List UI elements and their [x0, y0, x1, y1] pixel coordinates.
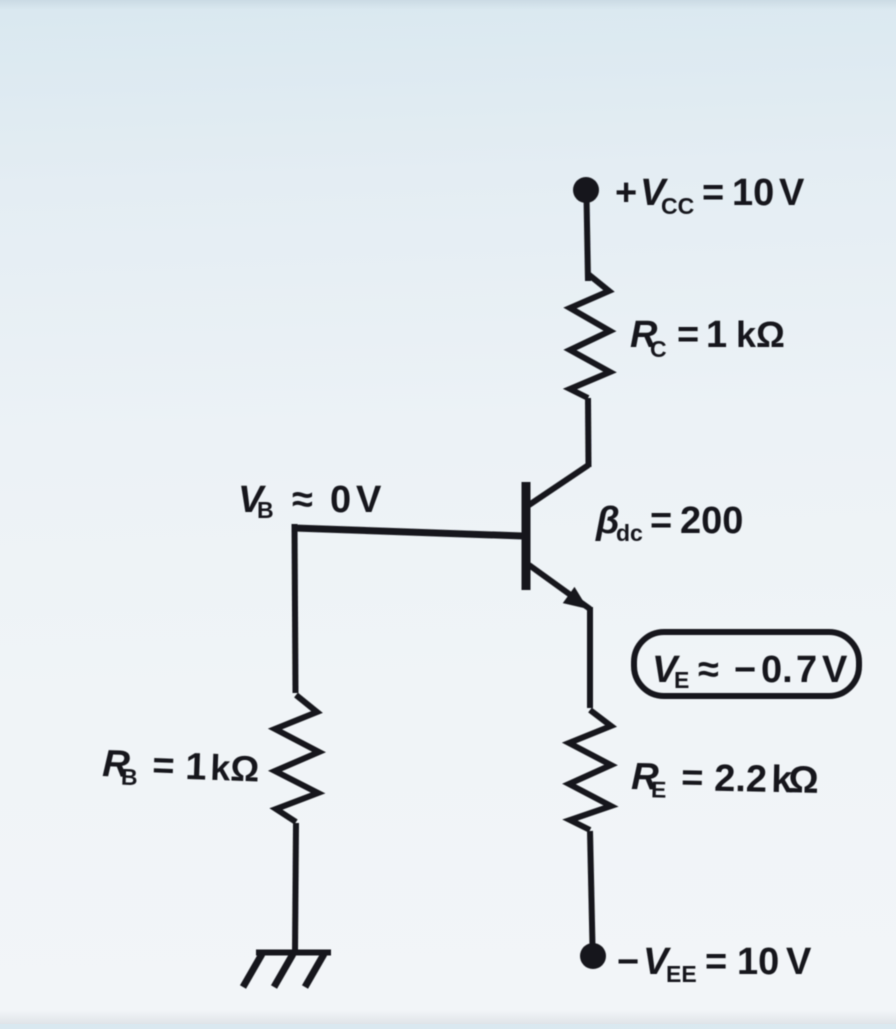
wire RB to ground [295, 823, 296, 953]
resistor RC [570, 274, 610, 398]
power terminal -VEE [580, 943, 606, 969]
wire base to RB [295, 524, 296, 693]
resistor RE [569, 710, 611, 830]
node B base wire [294, 528, 523, 536]
ground [243, 953, 331, 988]
wire RE to VEE [590, 831, 593, 946]
wire RC to collector [585, 398, 592, 467]
resistor RB [275, 695, 319, 822]
box VE [634, 632, 859, 696]
svg-text:βdc=200: βdc=200 [595, 500, 743, 546]
svg-text:RB=1kΩ: RB=1kΩ [102, 743, 260, 794]
wire emitter to RE [587, 607, 593, 708]
transistor Q1 [526, 465, 590, 609]
wire VCC to RC [587, 196, 589, 281]
power terminal +VCC [573, 177, 599, 203]
svg-text:+VCC=10V: +VCC=10V [615, 172, 805, 219]
svg-text:RC=1kΩ: RC=1kΩ [630, 314, 785, 362]
svg-text:RE=2.2kΩ: RE=2.2kΩ [631, 756, 819, 806]
svg-text:VE≈−0.7V: VE≈−0.7V [652, 649, 848, 693]
svg-text:VB≈0V: VB≈0V [238, 479, 382, 523]
svg-text:−VEE=10V: −VEE=10V [617, 941, 812, 987]
